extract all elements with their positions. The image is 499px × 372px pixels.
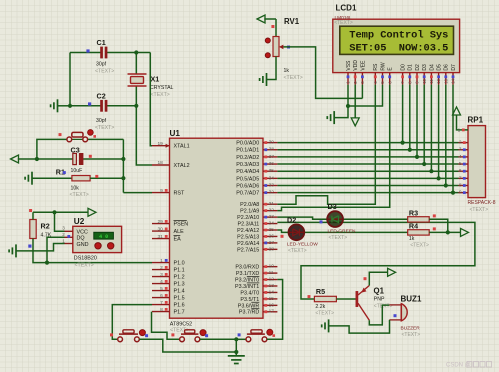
U1 pin 10 P3.0/RXD	[263, 266, 277, 268]
svg-text:D1: D1	[408, 64, 414, 71]
U1 pin 22 P2.1/A9	[263, 210, 277, 212]
wire reset button right	[88, 138, 124, 140]
svg-text:32: 32	[269, 190, 275, 196]
svg-text:33: 33	[269, 182, 275, 188]
junction D5	[437, 176, 441, 180]
wire P0.4 bus row	[277, 170, 458, 172]
svg-text:C2: C2	[97, 92, 106, 101]
svg-text:23: 23	[269, 214, 275, 220]
wire C3 row left	[37, 158, 73, 160]
svg-text:5: 5	[459, 161, 462, 167]
U2 pin 2 state square	[67, 235, 70, 238]
U1 pin 25 P2.4/A12	[263, 229, 277, 231]
svg-text:P3.7/RD: P3.7/RD	[239, 310, 259, 316]
svg-text:2.2k: 2.2k	[315, 304, 325, 310]
svg-text:1k: 1k	[284, 68, 290, 74]
svg-text:<TEXT>: <TEXT>	[315, 311, 334, 317]
svg-text:P1.7: P1.7	[174, 310, 185, 316]
U1 pin 39 P0.0/AD0	[263, 142, 277, 144]
wire P2.4 to D2	[277, 230, 288, 232]
svg-text:D2: D2	[415, 64, 421, 71]
wire LCD D6 column	[445, 85, 447, 186]
junction ground rail	[234, 337, 238, 341]
ground G2	[31, 172, 33, 185]
svg-text:<TEXT>: <TEXT>	[329, 235, 348, 241]
svg-text:LED-YELLOW: LED-YELLOW	[287, 242, 318, 248]
resistor R2	[30, 220, 36, 239]
junction C2-crystal	[134, 104, 138, 108]
svg-text:11: 11	[269, 270, 274, 276]
U2 button minus	[108, 243, 114, 249]
wire button K2 to ground rail	[200, 338, 236, 340]
capacitor C1	[101, 47, 103, 58]
svg-text:U2: U2	[74, 217, 85, 226]
wire RS net from P2.0	[277, 85, 375, 205]
wire LCD D4 column	[430, 85, 432, 172]
wire RV1 bottom to ground	[267, 57, 276, 80]
svg-text:C3: C3	[71, 146, 80, 155]
U1 pin 21 P2.0/A8	[263, 203, 277, 205]
button K1	[118, 337, 123, 342]
wire P1.6 to button K1	[112, 305, 152, 340]
junction C3 left	[35, 157, 39, 161]
svg-text:P2.3/A11: P2.3/A11	[238, 221, 260, 227]
U1 pin 7 P1.6	[152, 304, 170, 306]
svg-text:RP1: RP1	[468, 116, 484, 125]
RP1 pin 2	[459, 142, 469, 144]
RP1 pin 5	[459, 163, 469, 165]
svg-text:1k: 1k	[409, 236, 415, 242]
svg-text:D6: D6	[444, 64, 450, 71]
wire crystal top	[135, 53, 137, 75]
junction R1-RST	[121, 176, 125, 180]
U1 pin 5 P1.4	[152, 290, 170, 292]
wire P0.7 bus row	[277, 192, 458, 194]
svg-text:P1.1: P1.1	[174, 268, 185, 274]
svg-text:36: 36	[269, 161, 275, 167]
LCD pin 13 D6	[445, 73, 447, 85]
svg-text:EA: EA	[174, 237, 182, 243]
button K2 state squares	[171, 333, 174, 336]
wire C2 row	[70, 105, 101, 107]
svg-text:37: 37	[269, 154, 275, 160]
LCD pin 14 D7	[452, 73, 454, 85]
U1 pin 26 P2.5/A13	[263, 235, 277, 237]
svg-text:25: 25	[269, 227, 275, 233]
R1 right state square	[95, 175, 98, 178]
U1 pin 36 P0.3/AD3	[263, 163, 277, 165]
led D3 symbol	[328, 218, 343, 220]
junction VSS-RW	[346, 104, 350, 108]
U1 pin 35 P0.4/AD4	[263, 170, 277, 172]
svg-text:<TEXT>: <TEXT>	[334, 20, 353, 26]
junction DQ net	[45, 261, 49, 265]
wire P0.6 bus row	[277, 185, 458, 187]
svg-text:P0.3/AD3: P0.3/AD3	[236, 162, 259, 168]
svg-text:P2.5/A13: P2.5/A13	[237, 234, 259, 240]
svg-text:1: 1	[62, 238, 65, 243]
junction D0	[401, 141, 405, 145]
svg-text:DQ: DQ	[77, 236, 85, 242]
svg-text:SET:05 NOW:03.5: SET:05 NOW:03.5	[349, 42, 448, 54]
node C2 left state square	[88, 102, 91, 105]
wire DQ to P1.0	[47, 262, 152, 264]
LCD pin 7 D0	[402, 73, 404, 85]
button K1 actuator	[139, 330, 145, 336]
capacitor C2	[101, 100, 103, 111]
svg-text:30pf: 30pf	[96, 118, 107, 124]
transistor Q1 PNP	[356, 291, 358, 306]
U1 pin 27 P2.6/A14	[263, 242, 277, 244]
svg-text:RESPACK-8: RESPACK-8	[468, 200, 496, 206]
wire XTAL2 net	[136, 106, 152, 165]
svg-text:39: 39	[269, 140, 275, 146]
R1 state square	[63, 171, 66, 174]
wire VSS to ground net	[335, 85, 348, 118]
wire P2.3 buzzer drive long route	[277, 222, 475, 299]
junction C3 right	[121, 157, 125, 161]
wire RW ground link	[348, 85, 383, 106]
svg-text:U1: U1	[170, 129, 181, 138]
wire R5 to Q1 base	[336, 298, 356, 300]
wire Q1 emitter to VCC	[369, 272, 388, 285]
sensor U2 body	[73, 226, 122, 252]
svg-text:7: 7	[160, 300, 163, 306]
U1 pin 4 P1.3	[152, 283, 170, 285]
U1 pin 9 RST	[152, 192, 170, 194]
U1 pin 17 P3.7/RD	[263, 311, 277, 313]
RP1 pin 7	[459, 177, 469, 179]
svg-text:P0.2/AD2: P0.2/AD2	[236, 155, 259, 161]
svg-text:VEE: VEE	[360, 60, 366, 71]
svg-text:LCD1: LCD1	[336, 4, 357, 13]
junction ground rail lower	[234, 350, 238, 354]
svg-text:7: 7	[459, 175, 462, 181]
svg-text:<TEXT>: <TEXT>	[95, 125, 114, 131]
svg-text:P3.4/T0: P3.4/T0	[240, 290, 259, 296]
wire D3 to R3	[327, 218, 408, 220]
svg-text:10k: 10k	[71, 186, 80, 192]
mcu U1 body	[170, 138, 264, 318]
LCD pin 2 VDD	[354, 73, 356, 85]
svg-text:13: 13	[443, 78, 448, 83]
wire C1 row	[70, 52, 101, 54]
U2 pin VCC	[65, 230, 73, 232]
svg-text:6: 6	[459, 168, 462, 174]
junction R3-R4	[446, 230, 450, 234]
wire D2 to R4	[289, 231, 408, 233]
svg-text:Temp Control Sys: Temp Control Sys	[349, 30, 448, 42]
svg-text:3: 3	[160, 272, 163, 278]
svg-text:4: 4	[459, 154, 462, 160]
RP1 pin 4	[459, 156, 469, 158]
R5 state square	[308, 295, 311, 298]
svg-text:X1: X1	[151, 75, 160, 84]
wire P0.0 bus row	[277, 142, 458, 144]
U1 pin 19 XTAL1	[152, 145, 170, 147]
svg-text:9: 9	[459, 190, 462, 196]
BUZ1 state square	[394, 314, 397, 317]
wire button K3 to INT0	[267, 280, 283, 340]
RP1 pin 6	[459, 170, 469, 172]
wire P2.2 to D3	[277, 217, 327, 219]
R3 state square	[433, 214, 436, 217]
U2 pin GND	[65, 243, 73, 245]
ground G8 RV1	[266, 73, 268, 86]
svg-text:38: 38	[269, 147, 275, 153]
svg-text:10: 10	[422, 78, 427, 83]
svg-text:Q1: Q1	[374, 286, 385, 295]
svg-text:13: 13	[269, 283, 275, 289]
svg-text:P1.6: P1.6	[174, 303, 185, 309]
svg-text:P0.0/AD0: P0.0/AD0	[236, 141, 259, 147]
wire through reset button	[67, 138, 88, 140]
wire Q1 collector to buzzer	[369, 305, 389, 325]
U1 pin 29 PSEN	[152, 223, 170, 225]
led D2 LED-YELLOW body	[289, 224, 305, 240]
svg-text:10uF: 10uF	[71, 168, 83, 174]
wire RV1 wiper to VEE	[283, 47, 362, 99]
wire LCD D7 column	[452, 85, 454, 193]
U1 pin 18 XTAL2	[152, 164, 170, 166]
svg-text:24: 24	[269, 220, 275, 226]
svg-text:<TEXT>: <TEXT>	[151, 92, 170, 98]
svg-text:<TEXT>: <TEXT>	[402, 332, 421, 338]
svg-text:P1.0: P1.0	[174, 261, 185, 267]
svg-text:21: 21	[269, 201, 275, 207]
Q1 emitter state square	[364, 277, 367, 280]
svg-text:2: 2	[62, 232, 65, 237]
svg-text:14: 14	[451, 78, 456, 83]
LCD pin 9 D2	[416, 73, 418, 85]
wire LCD D1 column	[409, 85, 411, 150]
svg-text:XTAL2: XTAL2	[174, 163, 190, 169]
resistor R1	[72, 176, 90, 181]
capacitor C3 electrolytic	[73, 153, 77, 164]
LCD pin 11 D4	[430, 73, 432, 85]
svg-text:BUZ1: BUZ1	[401, 294, 422, 303]
wire button K1 to ground rail	[139, 339, 236, 352]
wire buzzer to ground	[329, 320, 390, 333]
svg-text:1: 1	[458, 128, 461, 134]
button K3 state squares	[238, 333, 241, 336]
led D3 LED-GREEN body	[327, 211, 343, 227]
U1 pin 33 P0.6/AD6	[263, 185, 277, 187]
wire P1.7 to button K2	[152, 312, 180, 340]
svg-text:1: 1	[160, 258, 163, 264]
U1 pin 11 P3.1/TXD	[263, 272, 277, 274]
LCD pin 12 D5	[438, 73, 440, 85]
svg-text:P2.4/A12: P2.4/A12	[237, 228, 259, 234]
svg-text:18: 18	[157, 160, 163, 166]
svg-text:35: 35	[269, 168, 275, 174]
svg-text:6: 6	[160, 293, 163, 299]
svg-text:BUZZER: BUZZER	[401, 325, 421, 331]
R2 top state square	[29, 209, 32, 212]
U1 pin 1 P1.0	[152, 262, 170, 264]
svg-text:P3.0/RXD: P3.0/RXD	[235, 265, 259, 271]
svg-text:4 0: 4 0	[99, 234, 108, 240]
U1 pin 38 P0.1/AD1	[263, 149, 277, 151]
svg-text:AT89C52: AT89C52	[170, 321, 192, 327]
U1 pin 2 P1.1	[152, 269, 170, 271]
RP1 pin 9	[459, 192, 469, 194]
svg-text:C1: C1	[97, 38, 106, 47]
button K3	[246, 337, 251, 342]
button K1 state squares	[110, 333, 113, 336]
svg-text:LED-GREEN: LED-GREEN	[328, 228, 357, 234]
svg-text:<TEXT>: <TEXT>	[70, 192, 89, 198]
wire ground rail vertical	[235, 339, 237, 356]
svg-text:GND: GND	[77, 242, 89, 248]
U2 pin DQ	[65, 236, 73, 238]
wire P0.5 bus row	[277, 177, 458, 179]
svg-text:ALE: ALE	[174, 229, 185, 235]
ground G5 buttons	[228, 355, 245, 357]
svg-text:P1.2: P1.2	[174, 275, 185, 281]
svg-text:P0.7/AD7: P0.7/AD7	[236, 191, 259, 197]
wire LCD D2 column	[416, 85, 418, 157]
wire RST to chip	[123, 192, 152, 194]
junction D4	[429, 169, 433, 173]
LCD pin 3 VEE	[361, 73, 363, 85]
power arrow LED VCC	[461, 228, 469, 236]
U1 pin 3 P1.2	[152, 276, 170, 278]
svg-text:D3: D3	[328, 202, 337, 211]
svg-text:R3: R3	[409, 208, 418, 217]
svg-text:P2.0/A8: P2.0/A8	[240, 202, 259, 208]
svg-text:RV1: RV1	[284, 17, 300, 26]
U1 pin 31 EA	[152, 238, 170, 240]
power arrow RP1 VCC	[453, 107, 461, 115]
svg-text:3: 3	[459, 147, 462, 153]
svg-text:<TEXT>: <TEXT>	[75, 262, 94, 268]
wire ground rail to button K3	[236, 338, 246, 340]
svg-text:12: 12	[436, 78, 441, 83]
svg-text:VCC: VCC	[77, 229, 88, 235]
svg-text:14: 14	[269, 289, 275, 295]
RV1 top state square	[271, 25, 274, 28]
U1 pin 12 P3.2/INT0	[263, 279, 277, 281]
wire LCD D5 column	[438, 85, 440, 179]
wire R4 right to VCC	[429, 231, 461, 233]
svg-text:27: 27	[269, 240, 275, 246]
wire C1-C2 left vertical	[69, 53, 71, 106]
svg-text:P0.5/AD5: P0.5/AD5	[236, 176, 259, 182]
U1 pin 37 P0.2/AD2	[263, 156, 277, 158]
junction D1	[408, 148, 412, 152]
svg-text:P0.1/AD1: P0.1/AD1	[236, 148, 259, 154]
svg-text:31: 31	[157, 234, 163, 240]
LCD pin 1 VSS	[347, 73, 349, 85]
ground G3	[15, 244, 17, 257]
wire U2 GND	[16, 244, 64, 251]
svg-text:D3: D3	[422, 64, 428, 71]
node C1 left state square	[86, 49, 89, 52]
led D2 symbol	[289, 231, 304, 233]
wire RST vertical	[122, 139, 124, 192]
U1 pin 14 P3.4/T0	[263, 291, 277, 293]
junction D6	[444, 183, 448, 187]
lcd LCD1 body	[333, 19, 460, 72]
svg-text:P1.5: P1.5	[174, 296, 185, 302]
svg-text:DS18B20: DS18B20	[74, 255, 97, 261]
svg-text:<TEXT>: <TEXT>	[95, 69, 114, 75]
svg-text:26: 26	[269, 233, 275, 239]
wire R2 bottom to DQ net	[33, 239, 47, 263]
C3 state square	[89, 155, 92, 158]
wire RP1 pin1 to VCC	[457, 115, 469, 130]
wire RV1 top	[275, 19, 277, 37]
svg-text:9: 9	[160, 188, 163, 194]
U1 pin 28 P2.7/A15	[263, 248, 277, 250]
junction C2-ground	[68, 104, 72, 108]
U1 pin 34 P0.5/AD5	[263, 177, 277, 179]
wire LCD D0 column	[402, 85, 404, 143]
svg-text:4: 4	[160, 279, 163, 285]
wire P0.2 bus row	[277, 156, 458, 158]
svg-text:P2.2/A10: P2.2/A10	[237, 215, 259, 221]
LCD pin 6 E	[389, 73, 391, 85]
svg-text:8: 8	[459, 182, 462, 188]
U1 pin 13 P3.3/INT1	[263, 285, 277, 287]
potentiometer RV1	[273, 37, 279, 57]
wire ground stub	[58, 105, 70, 107]
junction D3	[422, 162, 426, 166]
wire crystal bottom	[135, 86, 137, 106]
LCD pin 8 D1	[409, 73, 411, 85]
button RESET state squares	[59, 133, 62, 136]
svg-text:<TEXT>: <TEXT>	[374, 303, 393, 309]
wire R2 top	[32, 212, 34, 219]
svg-text:22: 22	[269, 208, 275, 214]
svg-text:D0: D0	[401, 64, 407, 71]
svg-text:30: 30	[157, 226, 163, 232]
svg-text:10: 10	[269, 264, 275, 270]
svg-text:P1.3: P1.3	[174, 282, 185, 288]
svg-text:11: 11	[429, 79, 434, 84]
svg-text:RS: RS	[373, 63, 379, 71]
svg-text:P2.6/A14: P2.6/A14	[237, 241, 259, 247]
svg-text:VDD: VDD	[353, 60, 359, 71]
crystal X1	[128, 73, 147, 75]
wire U2 VCC	[55, 212, 65, 231]
button RESET	[67, 137, 72, 142]
svg-text:PNP: PNP	[374, 297, 385, 303]
power arrow VCC sensor	[88, 208, 96, 216]
svg-text:28: 28	[269, 246, 275, 252]
svg-text:CRYSTAL: CRYSTAL	[150, 85, 174, 91]
svg-text:16: 16	[269, 302, 275, 308]
svg-text:P1.4: P1.4	[174, 289, 185, 295]
wire R1 right	[90, 177, 123, 179]
ground G6 buzzer	[328, 319, 330, 332]
svg-text:30pf: 30pf	[96, 62, 107, 68]
junction D2	[415, 155, 419, 159]
wire LCD D3 column	[423, 85, 425, 164]
svg-text:19: 19	[157, 141, 163, 147]
svg-text:P0.4/AD4: P0.4/AD4	[236, 169, 259, 175]
button K2	[180, 337, 185, 342]
svg-text:8: 8	[160, 307, 163, 313]
U1 pin 32 P0.7/AD7	[263, 192, 277, 194]
U1 pin 24 P2.3/A11	[263, 223, 277, 225]
svg-text:<TEXT>: <TEXT>	[410, 243, 429, 249]
LCD pin 4 RS	[374, 73, 376, 85]
wire E net from P2.1	[277, 85, 389, 211]
ground G1	[57, 99, 59, 112]
button K2 actuator	[200, 330, 206, 336]
